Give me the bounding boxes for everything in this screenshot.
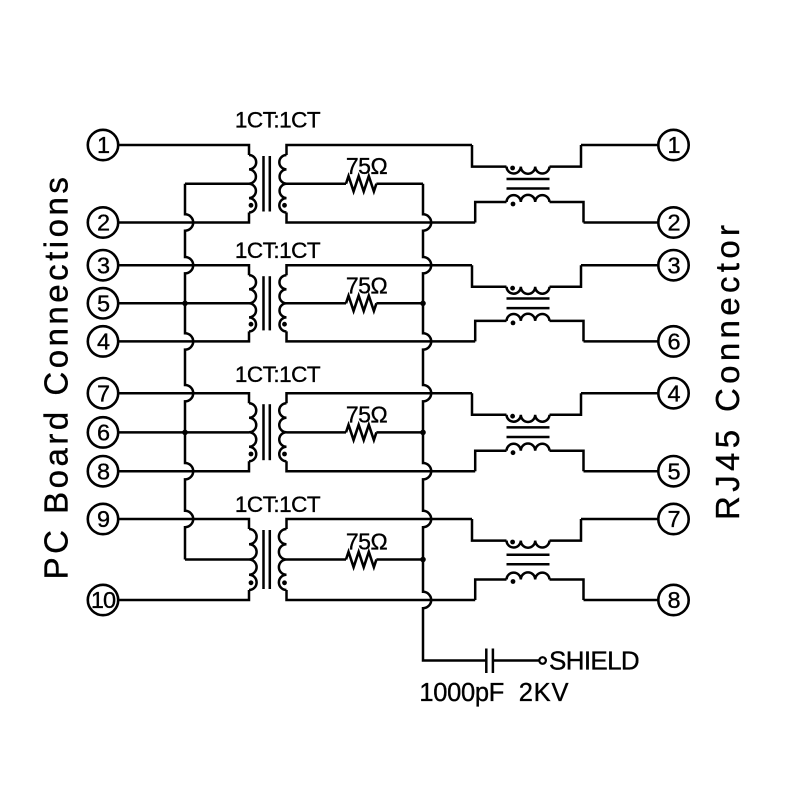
wire pin 5 to transformer T2 center tap — [118, 302, 249, 305]
wire pin 7 to transformer T3 primary top — [118, 393, 249, 403]
wire choke L3 to RJ45 pin 4 — [581, 392, 658, 395]
wire choke L4 to RJ45 pin 8 — [584, 599, 659, 602]
svg-text:10: 10 — [91, 587, 116, 613]
choke L4 top winding lead-out — [550, 519, 582, 541]
choke L2 top winding phase dot — [510, 286, 515, 291]
pin 10 PC-board connector — [88, 585, 118, 615]
choke L4 bottom winding lead-in — [475, 580, 506, 601]
svg-text:2: 2 — [97, 210, 109, 236]
choke L4 top winding — [507, 541, 550, 548]
transformer T4 label 1CT:1CT — [235, 492, 321, 517]
wire transformer T4 secondary top to choke — [287, 519, 473, 529]
choke L3 bottom winding phase dot — [511, 450, 516, 455]
junction bus / pin 5 line — [182, 301, 188, 307]
choke L2 bottom winding phase dot — [511, 321, 516, 326]
svg-text:SHIELD: SHIELD — [549, 645, 639, 675]
wire pin 1 to transformer T1 primary top — [118, 145, 249, 155]
pin 9 PC-board connector — [88, 504, 118, 534]
choke L1 core — [507, 179, 550, 189]
wire pin 2 to transformer T1 primary bottom — [118, 213, 249, 223]
svg-text:1: 1 — [667, 132, 679, 158]
choke L1 top winding lead-out — [550, 145, 582, 167]
svg-text:5: 5 — [667, 458, 680, 484]
choke L2 bottom winding lead-in — [475, 321, 506, 342]
wire choke L4 to RJ45 pin 7 — [581, 518, 658, 521]
wire transformer T4 secondary bottom to choke — [287, 590, 476, 600]
transformer T2 core — [264, 276, 270, 330]
transformer T1 secondary winding — [279, 155, 286, 213]
choke L3 core — [507, 427, 550, 437]
junction bus / resistor R2 — [420, 301, 426, 307]
wire choke L1 to RJ45 pin 2 — [584, 221, 659, 224]
choke L1 bottom winding phase dot — [511, 202, 516, 207]
wire transformer T1 center tap to bus — [185, 183, 249, 186]
svg-text:7: 7 — [97, 380, 109, 406]
wire transformer T4 secondary center tap to resistor R4 — [287, 558, 347, 561]
svg-text:3: 3 — [97, 252, 110, 278]
pin 8 RJ45 connector — [658, 585, 688, 615]
wire pin 8 to transformer T3 primary bottom — [118, 461, 249, 471]
choke L1 bottom winding — [507, 195, 550, 202]
label PC Board Connections (rotated) — [38, 174, 75, 580]
wire resistor R4 to common bus — [376, 558, 423, 561]
choke L2 top winding — [507, 287, 550, 294]
wire pin 3 to transformer T2 primary top — [118, 265, 249, 275]
wire pin 4 to transformer T2 primary bottom — [118, 331, 249, 341]
transformer T4 secondary winding — [279, 529, 287, 590]
choke L3 bottom winding lead-in — [475, 451, 506, 472]
wire pin 6 to transformer T3 center tap — [118, 431, 249, 434]
svg-text:9: 9 — [97, 506, 109, 532]
choke L3 bottom winding — [507, 444, 550, 451]
pin 1 PC-board connector — [88, 130, 118, 160]
transformer T3 label 1CT:1CT — [235, 362, 321, 387]
svg-text:6: 6 — [97, 420, 110, 446]
wire choke L1 to RJ45 pin 1 — [581, 144, 658, 147]
choke L2 core — [507, 299, 550, 309]
svg-text:PC Board Connections: PC Board Connections — [38, 174, 75, 580]
transformer T4 core — [264, 530, 270, 589]
svg-text:5: 5 — [97, 291, 110, 317]
svg-text:1000pF: 1000pF — [419, 679, 504, 707]
wire transformer T3 secondary top to choke — [287, 393, 473, 403]
svg-text:4: 4 — [97, 329, 110, 355]
wire choke L3 to RJ45 pin 5 — [584, 470, 659, 473]
wire resistor R1 to common bus — [376, 183, 423, 186]
svg-text:75Ω: 75Ω — [346, 529, 388, 555]
shield terminal (open circle) — [539, 657, 546, 664]
choke L1 bottom winding lead-out — [550, 202, 584, 223]
pin 6 PC-board connector — [88, 417, 118, 447]
choke L2 top winding lead-out — [550, 265, 582, 287]
choke L2 top winding lead-in — [472, 265, 507, 287]
svg-text:75Ω: 75Ω — [346, 401, 388, 427]
choke L3 top winding lead-in — [472, 393, 507, 415]
pin 6 RJ45 connector — [658, 326, 688, 356]
wire transformer T2 secondary center tap to resistor R2 — [287, 302, 347, 305]
transformer T3 secondary winding — [279, 403, 286, 461]
transformer T1 core — [264, 156, 270, 212]
transformer T1 label 1CT:1CT — [235, 108, 321, 133]
transformer T4 primary phase dot — [249, 580, 254, 585]
svg-text:8: 8 — [667, 587, 680, 613]
svg-text:1CT:1CT: 1CT:1CT — [235, 108, 321, 133]
choke L2 bottom winding — [507, 314, 550, 321]
choke L3 top winding — [507, 415, 550, 422]
wire choke L2 to RJ45 pin 6 — [584, 340, 659, 343]
svg-text:8: 8 — [97, 458, 110, 484]
transformer T3 primary phase dot — [249, 452, 254, 457]
resistor R3 75 ohm label — [346, 401, 388, 427]
capacitor C1 1000pF 2KV — [486, 649, 493, 674]
wire common termination bus (right, with crossover hops) — [423, 184, 486, 661]
wire center-tap bus (left, with crossover hops) — [185, 184, 193, 560]
wire transformer T1 secondary bottom to choke — [287, 213, 476, 223]
svg-text:75Ω: 75Ω — [346, 153, 388, 179]
pin 3 PC-board connector — [88, 250, 118, 280]
choke L3 top winding lead-out — [550, 393, 582, 415]
label 1000pF 2KV — [419, 679, 569, 707]
wire capacitor to shield terminal — [493, 659, 539, 662]
svg-text:6: 6 — [667, 329, 680, 355]
resistor R2 75 ohm — [346, 296, 376, 311]
resistor R4 75 ohm label — [346, 529, 388, 555]
transformer T4 primary winding — [249, 529, 257, 590]
wire transformer T2 secondary top to choke — [287, 265, 473, 275]
svg-text:7: 7 — [667, 506, 679, 532]
choke L1 top winding — [507, 167, 550, 174]
resistor R3 75 ohm — [346, 425, 376, 440]
wire transformer T3 secondary bottom to choke — [287, 461, 476, 471]
resistor R1 75 ohm label — [346, 153, 388, 179]
resistor R4 75 ohm — [346, 552, 376, 567]
wire transformer T3 secondary center tap to resistor R3 — [287, 431, 347, 434]
label SHIELD — [549, 645, 639, 675]
choke L4 core — [507, 555, 550, 565]
pin 5 PC-board connector — [88, 288, 118, 318]
svg-text:2: 2 — [667, 210, 679, 236]
wire transformer T1 secondary center tap to resistor R1 — [287, 183, 347, 186]
choke L3 top winding phase dot — [510, 414, 515, 419]
pin 2 PC-board connector — [88, 207, 118, 237]
svg-text:75Ω: 75Ω — [346, 272, 388, 298]
choke L1 bottom winding lead-in — [475, 202, 506, 223]
choke L3 bottom winding lead-out — [550, 451, 584, 472]
svg-text:3: 3 — [667, 252, 680, 278]
choke L2 bottom winding lead-out — [550, 321, 584, 342]
pin 7 RJ45 connector — [658, 504, 688, 534]
wire choke L2 to RJ45 pin 3 — [581, 264, 658, 267]
resistor R2 75 ohm label — [346, 272, 388, 298]
svg-text:1CT:1CT: 1CT:1CT — [235, 362, 321, 387]
svg-text:1CT:1CT: 1CT:1CT — [235, 492, 321, 517]
choke L4 bottom winding — [507, 572, 550, 579]
junction bus / resistor R3 — [420, 430, 426, 436]
pin 3 RJ45 connector — [658, 250, 688, 280]
svg-text:RJ45 Connector: RJ45 Connector — [709, 221, 746, 520]
transformer T1 primary phase dot — [249, 203, 254, 208]
svg-text:1: 1 — [97, 132, 109, 158]
choke L4 top winding lead-in — [472, 519, 507, 541]
transformer T2 secondary winding — [279, 275, 286, 331]
choke L4 bottom winding lead-out — [550, 580, 584, 601]
transformer T2 secondary phase dot — [282, 322, 287, 327]
transformer T2 primary phase dot — [249, 322, 254, 327]
transformer T2 label 1CT:1CT — [235, 238, 321, 263]
svg-text:1CT:1CT: 1CT:1CT — [235, 238, 321, 263]
wire transformer T4 center tap to bus — [185, 558, 249, 561]
choke L1 top winding lead-in — [472, 145, 507, 167]
transformer T1 secondary phase dot — [282, 203, 287, 208]
transformer T1 primary winding — [249, 155, 256, 213]
transformer T4 secondary phase dot — [282, 580, 287, 585]
wire transformer T2 secondary bottom to choke — [287, 331, 476, 341]
svg-text:4: 4 — [667, 380, 680, 406]
transformer T2 primary winding — [249, 275, 256, 331]
wire pin 10 to transformer T4 primary bottom — [118, 590, 249, 600]
wire transformer T1 secondary top to choke — [287, 145, 473, 155]
label RJ45 Connector (rotated) — [709, 221, 746, 520]
junction bus / pin 6 line — [182, 430, 188, 436]
pin 4 PC-board connector — [88, 326, 118, 356]
svg-text:2KV: 2KV — [519, 679, 570, 707]
pin 1 RJ45 connector — [658, 130, 688, 160]
pin 8 PC-board connector — [88, 456, 118, 486]
wire resistor R2 to common bus — [376, 302, 423, 305]
choke L4 top winding phase dot — [510, 540, 515, 545]
transformer T3 core — [264, 404, 270, 460]
choke L1 top winding phase dot — [510, 166, 515, 171]
pin 5 RJ45 connector — [658, 456, 688, 486]
wire resistor R3 to common bus — [376, 431, 423, 434]
transformer T3 primary winding — [249, 403, 256, 461]
pin 7 PC-board connector — [88, 378, 118, 408]
transformer T3 secondary phase dot — [282, 452, 287, 457]
resistor R1 75 ohm — [346, 176, 376, 191]
choke L4 bottom winding phase dot — [511, 579, 516, 584]
wire pin 9 to transformer T4 primary top — [118, 519, 249, 529]
junction bus / resistor R4 — [420, 557, 426, 563]
pin 2 RJ45 connector — [658, 207, 688, 237]
pin 4 RJ45 connector — [658, 378, 688, 408]
